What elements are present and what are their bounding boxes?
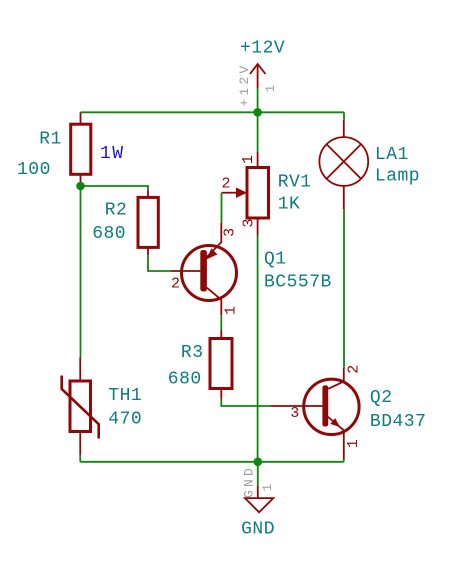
body [138,197,158,247]
pin stub [257,485,259,498]
node junction GND on rail [253,458,262,467]
body [247,168,269,219]
transistor Q2 (NPN BD437) [271,365,426,459]
power symbol +12V [237,38,285,112]
base pin [171,270,200,272]
wire left vertical R1 to TH1 [80,186,82,358]
svg-text:1: 1 [240,155,257,164]
body [70,381,91,432]
emitter arrow (NPN) [330,418,340,427]
pin top [147,191,149,198]
svg-text:Lamp: Lamp [375,166,420,186]
svg-text:R2: R2 [105,201,128,221]
X chord 1 [327,144,361,178]
svg-text:680: 680 [168,369,202,389]
svg-text:2: 2 [345,365,362,374]
body [71,124,91,174]
lamp LA1 [319,112,420,209]
resistor R2 [92,191,158,256]
svg-text:Q2: Q2 [370,388,393,408]
pin top [343,120,345,137]
svg-text:GND: GND [241,465,256,498]
diagonal with hooks [62,376,99,439]
thermistor TH1 [62,358,143,456]
bulb circle [319,137,368,186]
emitter line to pin 1 [328,417,344,460]
wire stub from rail down [343,112,345,120]
svg-text:TH1: TH1 [108,386,142,406]
collector line to pin 2 [328,368,344,389]
svg-text:3: 3 [290,405,299,422]
pin 3 bottom [257,218,259,236]
wiper arrow [236,188,247,198]
svg-text:470: 470 [108,409,142,429]
svg-text:1W: 1W [100,144,125,164]
wire bottom rail [80,461,344,463]
svg-text:3: 3 [222,228,239,237]
wire stub down [257,462,259,486]
triangle [245,498,273,512]
wire stub from rail up [257,89,259,113]
wire TH1 bottom to rail [79,455,81,462]
wire top rail +12V [81,111,345,113]
base bar [200,250,207,292]
pin top [220,331,222,339]
svg-text:1: 1 [345,439,362,448]
svg-text:GND: GND [241,519,275,539]
svg-text:BC557B: BC557B [264,273,332,293]
svg-text:3: 3 [240,218,257,227]
resistor R3 [168,331,232,400]
wire center vertical +12V to RV1 [257,112,259,152]
body [210,339,232,389]
circle [182,246,237,301]
base bar [322,385,328,426]
transistor Q1 (PNP BC557B) [171,223,332,316]
arrow barbs [250,64,266,74]
node junction below R1 [76,182,85,191]
pin top [79,358,81,382]
pin bottom [80,174,82,186]
pin bottom [147,247,149,255]
potentiometer RV1 [221,152,311,236]
node junction +12V on rail [253,108,262,117]
pin bottom [343,186,345,209]
pin bottom [79,432,81,456]
svg-text:1: 1 [222,306,239,315]
wiper line [222,192,237,194]
wire Q1 collector to R3 [220,315,222,330]
base pin [271,405,322,407]
wire junction to R2 [81,186,149,191]
svg-text:+12V: +12V [237,63,252,107]
svg-text:2: 2 [171,276,180,293]
svg-text:1: 1 [263,81,278,92]
circle [304,379,359,434]
svg-text:R1: R1 [39,130,62,150]
wire RV1 pin3 down to GND rail [257,236,259,462]
pin 1 top [257,152,259,168]
wire R2 bottom to Q1 base [148,255,171,271]
wire lamp bottom to Q2 collector [343,209,345,368]
svg-text:LA1: LA1 [375,145,409,165]
svg-text:1: 1 [260,480,275,491]
emitter arrow (PNP) [206,248,217,259]
svg-text:R3: R3 [181,343,204,363]
resistor R1 [17,112,125,186]
svg-text:Q1: Q1 [264,249,287,269]
wire Q2 emitter to rail [343,459,345,462]
svg-text:100: 100 [17,160,51,180]
collector line to pin 1 [207,288,221,316]
wire RV1 wiper to Q1 emitter [221,193,223,223]
wire R3 bottom to Q2 base [221,399,271,406]
pin stem of +12V flag [257,64,259,89]
svg-text:BD437: BD437 [370,412,427,432]
svg-text:1K: 1K [278,194,301,214]
pin bottom [220,389,222,400]
svg-text:680: 680 [92,224,126,244]
X chord 2 [327,144,361,178]
emitter line to pin 3 [206,223,221,258]
ground symbol GND [241,462,275,540]
svg-text:+12V: +12V [240,38,285,58]
svg-text:RV1: RV1 [278,172,312,192]
svg-text:2: 2 [221,176,230,193]
pin top [80,112,82,124]
